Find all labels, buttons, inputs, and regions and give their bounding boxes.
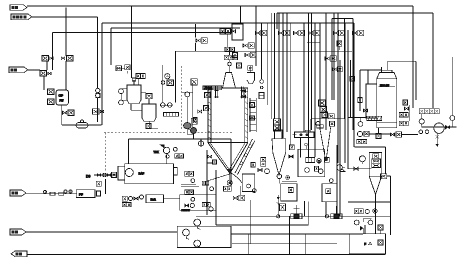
svg-text:MSC 105: MSC 105 [380, 85, 390, 87]
svg-text:RAF: RAF [139, 172, 145, 176]
svg-text:JT-101: JT-101 [204, 86, 212, 90]
svg-text:NaR: NaR [151, 197, 156, 201]
svg-text:CIP: CIP [59, 94, 64, 98]
svg-text:TRK: TRK [154, 150, 159, 154]
svg-text:D9: D9 [86, 175, 90, 179]
svg-text:PRECIPIT: PRECIPIT [182, 210, 191, 212]
svg-text:F: F [364, 242, 366, 246]
svg-text:F F: F F [79, 192, 83, 196]
